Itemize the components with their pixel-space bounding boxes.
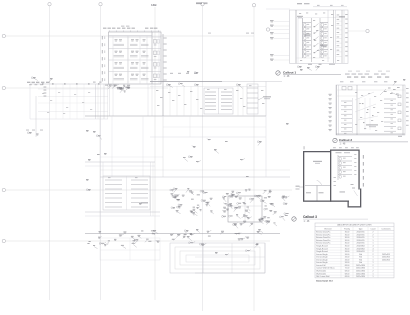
grid line C horizontal	[2, 188, 292, 191]
svg-text:1 : 48: 1 : 48	[340, 144, 346, 146]
stray mark NE	[246, 175, 249, 178]
north wing junction cluster	[108, 84, 131, 93]
callout 2 top right cluster	[380, 87, 400, 96]
callout 2 left dimension column	[329, 94, 332, 131]
svg-text:2032x1830: 2032x1830	[356, 273, 365, 275]
center court walls	[100, 116, 290, 233]
svg-text:Wall Double: Wall Double	[316, 271, 326, 273]
callout 2 bottom mark	[398, 136, 402, 137]
callout 1 top labels	[297, 3, 347, 7]
callout 2 detail outline	[336, 85, 405, 135]
callout 1 detail	[266, 9, 348, 63]
svg-text:2032x1830: 2032x1830	[356, 265, 365, 267]
svg-text:34.00: 34.00	[345, 257, 350, 259]
callout 1 title	[276, 70, 341, 78]
svg-text:2032x813: 2032x813	[356, 251, 364, 253]
svg-text:2: 2	[372, 234, 373, 236]
svg-text:2032x915: 2032x915	[382, 259, 390, 261]
svg-text:Curtain Wall Dbl Glass: Curtain Wall Dbl Glass	[316, 267, 335, 270]
svg-text:2032x915: 2032x915	[356, 237, 364, 239]
grid line B horizontal	[2, 86, 168, 89]
svg-text:ABCDEFGH IJKLMNOP QRST UVWX: ABCDEFGH IJKLMNOP QRST UVWX	[337, 224, 372, 227]
north wing left dimension column	[102, 36, 105, 81]
svg-text:1: 1	[372, 273, 373, 275]
svg-text:2032x864: 2032x864	[356, 245, 364, 247]
grid line 1 vertical	[48, 2, 51, 300]
svg-text:1: 1	[372, 257, 373, 259]
svg-text:2032x915: 2032x915	[356, 240, 364, 242]
svg-text:2032x915: 2032x915	[382, 254, 390, 256]
annotation column far east	[280, 196, 290, 221]
svg-text:Std: Std	[359, 253, 362, 256]
svg-text:68.00: 68.00	[345, 273, 350, 275]
svg-text:Type: Type	[358, 229, 362, 231]
south annotation band	[87, 230, 206, 249]
schedule grand total	[316, 279, 333, 282]
grid line 5 vertical	[252, 3, 255, 311]
svg-text:Exterior Door-Fla: Exterior Door-Fla	[316, 242, 331, 245]
callout 1 left grid bubble	[266, 28, 289, 31]
svg-text:4: 4	[372, 248, 373, 250]
svg-text:14B: 14B	[151, 3, 157, 7]
east wing door tag row	[170, 73, 197, 74]
svg-text:Exterior Door-Fla: Exterior Door-Fla	[316, 239, 331, 242]
west wing label cluster	[27, 77, 108, 97]
central restroom block	[85, 162, 160, 216]
svg-text:Callout 1: Callout 1	[283, 70, 296, 74]
callout 1 interior scatter	[299, 13, 339, 61]
north wing top dimension rows	[103, 26, 161, 32]
west wing lower marks	[26, 96, 102, 140]
callout 1 stall bank 2	[320, 10, 328, 62]
svg-text:Single-Raised: Single-Raised	[316, 245, 327, 247]
svg-text:1 : 48: 1 : 48	[304, 221, 310, 223]
callout 2 interior scatter	[355, 92, 383, 131]
svg-text:Wall Double: Wall Double	[316, 273, 326, 275]
svg-text:2: 2	[372, 232, 373, 234]
svg-text:Interior-Single: Interior-Single	[316, 261, 327, 264]
svg-text:1: 1	[372, 276, 373, 278]
central restroom marks	[86, 153, 148, 205]
west wing outline	[30, 84, 108, 119]
svg-text:Callout 3: Callout 3	[303, 215, 317, 219]
svg-text:Dbl Curtain Wall: Dbl Curtain Wall	[316, 275, 330, 278]
svg-text:1: 1	[372, 243, 373, 245]
south annotation band east	[207, 229, 263, 248]
svg-text:2032x915: 2032x915	[356, 243, 364, 245]
svg-text:Count: Count	[370, 228, 376, 231]
svg-text:Std: Std	[359, 261, 362, 264]
svg-text:2032x864: 2032x864	[356, 248, 364, 250]
annotation cluster west	[170, 188, 214, 216]
svg-text:4: 4	[372, 245, 373, 247]
callout 3 walls	[303, 150, 361, 208]
callout 1 bottom labels	[297, 64, 335, 71]
svg-text:2: 2	[372, 265, 373, 267]
svg-text:2032x1830: 2032x1830	[356, 271, 365, 273]
east wing door marks	[166, 71, 243, 89]
svg-text:Grand total: 113: Grand total: 113	[316, 279, 333, 282]
north wing right dimension column	[164, 38, 167, 81]
svg-text:Single-Raised: Single-Raised	[316, 251, 327, 253]
svg-text:2032x915: 2032x915	[382, 257, 390, 259]
callout 1 right fixture walls	[334, 10, 348, 63]
svg-text:34.00: 34.00	[345, 259, 350, 261]
schedule table	[315, 223, 394, 278]
svg-text:Exterior Door-Fla: Exterior Door-Fla	[316, 236, 331, 239]
svg-text:2032x1830: 2032x1830	[356, 268, 365, 270]
svg-text:Interior-Single: Interior-Single	[316, 256, 327, 259]
svg-text:34.00: 34.00	[345, 262, 350, 264]
callout 1 center leaders	[314, 24, 319, 54]
callout 3 room labels	[306, 152, 350, 193]
callout 2 room label	[366, 124, 378, 127]
svg-text:36.00: 36.00	[345, 232, 350, 234]
sheet title text	[196, 2, 208, 4]
north stair marks	[183, 156, 201, 163]
svg-text:1: 1	[372, 262, 373, 264]
grid line A horizontal	[2, 34, 254, 37]
svg-text:68.00: 68.00	[345, 265, 350, 267]
callout 1 dimension column	[270, 20, 290, 61]
south wall	[85, 233, 280, 235]
svg-text:1 : 48: 1 : 48	[284, 76, 290, 78]
corridor walls below north wing	[110, 84, 153, 116]
svg-text:34.00: 34.00	[345, 251, 350, 253]
callout 3 fixtures column	[334, 154, 357, 189]
svg-text:34.00: 34.00	[345, 254, 350, 256]
north wing band walls	[109, 36, 162, 85]
east wing restroom detail	[204, 88, 233, 114]
south rooms west	[100, 238, 160, 260]
svg-text:Std: Std	[359, 256, 362, 259]
callout 2 top labels	[340, 76, 405, 85]
svg-text:2: 2	[372, 251, 373, 253]
svg-text:Single-Raised: Single-Raised	[316, 248, 327, 250]
svg-text:72.00: 72.00	[345, 268, 350, 270]
east wing label	[258, 96, 271, 100]
west wing interior scatter	[42, 92, 92, 114]
grid annotation texts	[208, 33, 254, 34]
svg-text:2032x915: 2032x915	[356, 232, 364, 234]
grid line 2 vertical	[99, 2, 102, 300]
callout 3 dimension marks	[296, 146, 365, 189]
svg-text:2: 2	[372, 254, 373, 256]
svg-text:36.00: 36.00	[345, 248, 350, 250]
center court symbols	[192, 123, 289, 161]
svg-text:1: 1	[372, 237, 373, 239]
east wing outline	[85, 34, 282, 116]
svg-text:Std: Std	[359, 258, 362, 261]
svg-text:Callout 2: Callout 2	[339, 138, 352, 142]
svg-text:Exterior Door-Fla: Exterior Door-Fla	[316, 231, 331, 234]
svg-text:36.00: 36.00	[345, 237, 350, 239]
svg-text:Family: Family	[344, 229, 350, 231]
svg-text:2032x1830: 2032x1830	[356, 276, 365, 278]
svg-text:1: 1	[372, 240, 373, 242]
svg-text:68.00: 68.00	[345, 271, 350, 273]
callout 1 right grid bubble	[348, 29, 369, 32]
grid line 4 vertical	[201, 2, 204, 311]
svg-text:Interior-Dbl: Interior-Dbl	[316, 264, 326, 267]
north wing outline	[109, 32, 162, 84]
svg-text:Interior-Single: Interior-Single	[316, 258, 327, 261]
wing wall door tags	[42, 83, 100, 84]
callout 3 toilet stalls	[338, 155, 352, 180]
svg-text:1: 1	[372, 259, 373, 261]
callout 2 title	[333, 138, 408, 146]
svg-text:Exterior Door-Fla: Exterior Door-Fla	[316, 233, 331, 236]
stray south marks	[184, 229, 251, 256]
callout 2 stall bank left	[341, 87, 352, 134]
svg-text:2: 2	[372, 271, 373, 273]
svg-text:Interior-Single: Interior-Single	[316, 253, 327, 256]
svg-text:36.00: 36.00	[345, 245, 350, 247]
north wing classroom contents	[114, 39, 160, 80]
svg-text:36.00: 36.00	[345, 243, 350, 245]
svg-text:2032x915: 2032x915	[356, 234, 364, 236]
callout 2 stall bank right	[384, 95, 401, 133]
callout 2 center leaders	[355, 92, 378, 130]
svg-text:68.00: 68.00	[345, 276, 350, 278]
svg-text:36.00: 36.00	[345, 234, 350, 236]
east wing fixtures right	[247, 84, 258, 114]
south rooms maze	[170, 243, 265, 273]
svg-text:Comments: Comments	[381, 228, 390, 231]
annotation cluster east box	[228, 196, 262, 222]
svg-text:1: 1	[372, 268, 373, 270]
callout 1 stall bank 1	[303, 23, 312, 58]
callout 1 room labels	[297, 16, 345, 47]
grid line 3 vertical	[151, 3, 157, 300]
callout 1 note text row	[345, 71, 390, 75]
grid line D horizontal	[2, 239, 270, 242]
callout 3 title	[292, 215, 368, 223]
annotation cluster east marks	[222, 189, 277, 229]
callout 2 right dimension column	[406, 88, 409, 126]
east wing interior scatter	[156, 90, 264, 109]
svg-text:Element: Element	[325, 228, 332, 231]
svg-text:36.00: 36.00	[345, 240, 350, 242]
callout 3 interior partitions	[305, 180, 358, 201]
